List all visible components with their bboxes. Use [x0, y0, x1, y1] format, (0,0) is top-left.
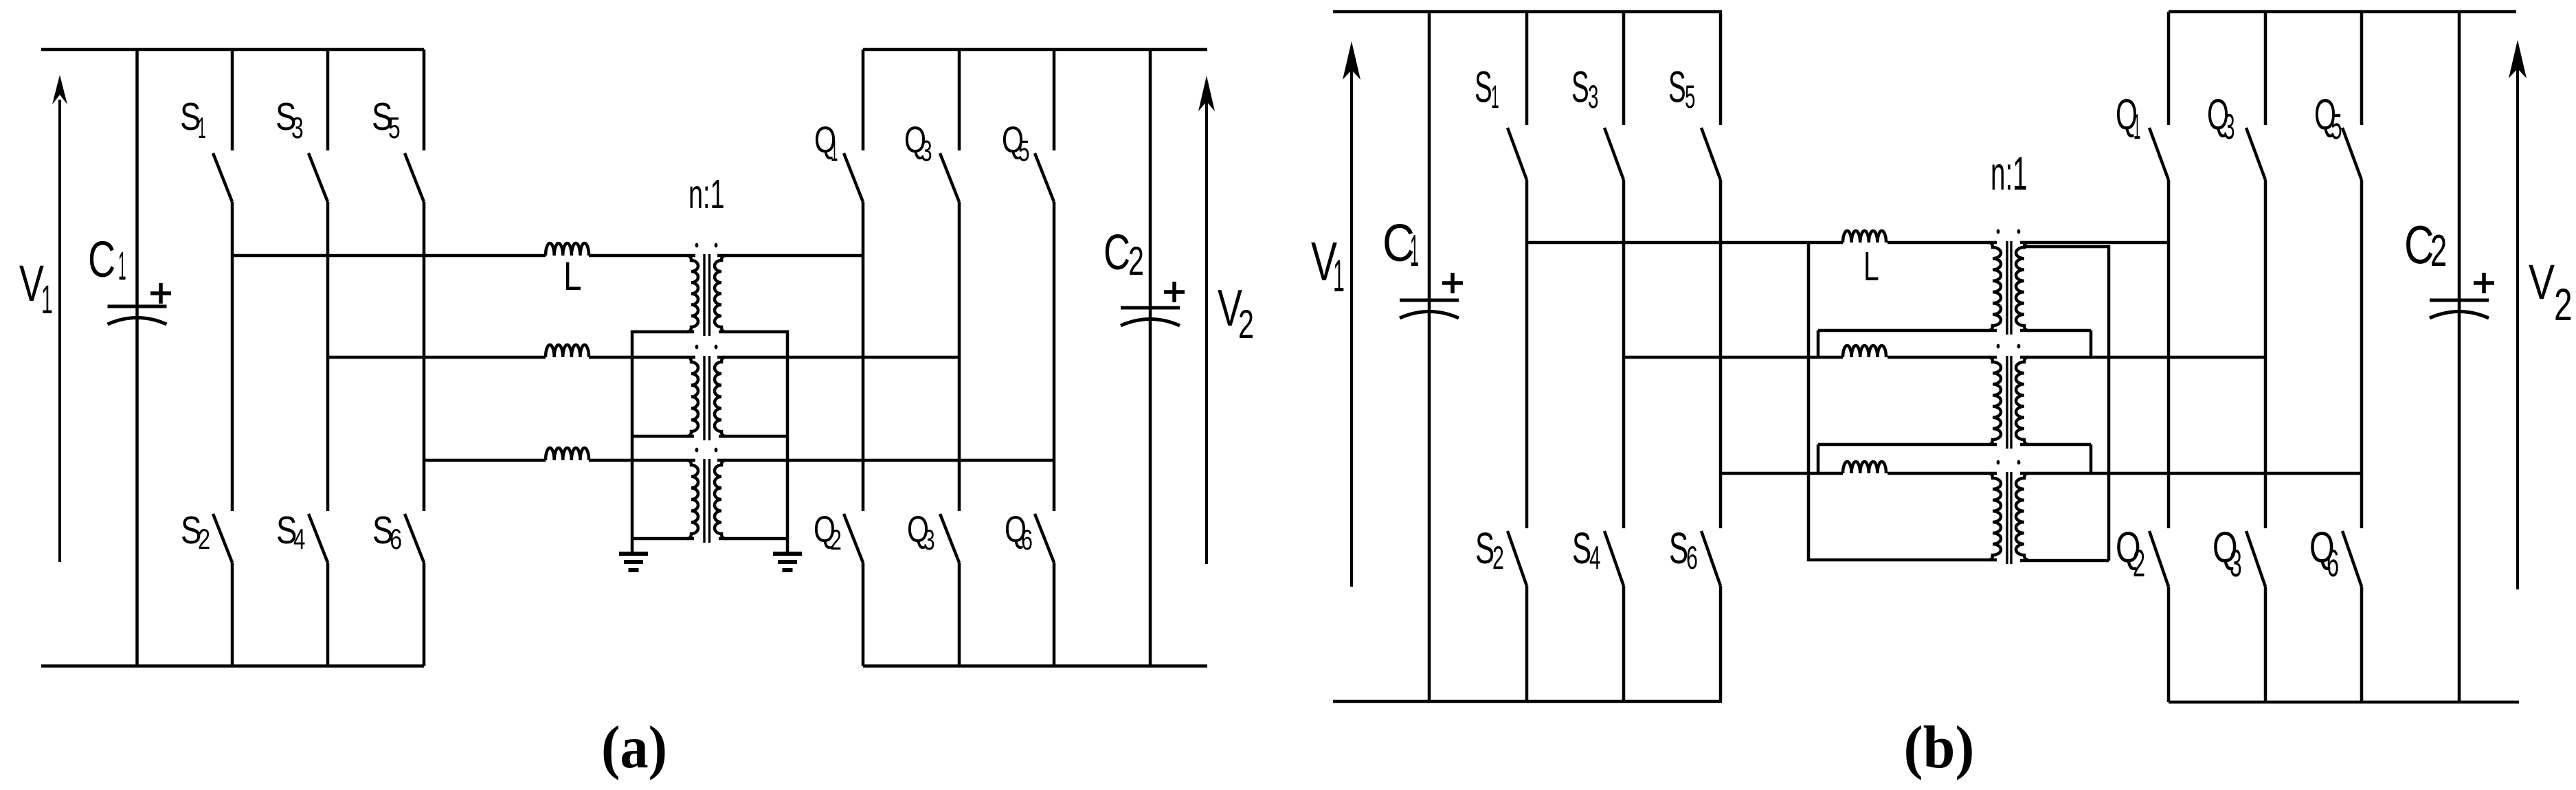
svg-text:L: L: [563, 254, 582, 299]
svg-text:V: V: [19, 255, 44, 312]
svg-text:S: S: [1572, 523, 1591, 573]
svg-text:C: C: [2404, 214, 2434, 275]
svg-text:2: 2: [2133, 541, 2145, 585]
svg-text:5: 5: [2331, 107, 2342, 147]
svg-text:2: 2: [830, 523, 842, 556]
svg-text:3: 3: [291, 111, 304, 145]
svg-text:6: 6: [1021, 523, 1033, 556]
svg-text:2: 2: [1128, 239, 1144, 284]
svg-text:L: L: [1863, 244, 1879, 289]
svg-text:S: S: [1668, 63, 1686, 112]
svg-text:2: 2: [2430, 225, 2447, 275]
svg-text:4: 4: [293, 523, 305, 555]
svg-text:2: 2: [2554, 279, 2573, 330]
svg-text:n:1: n:1: [1991, 147, 2028, 200]
svg-text:S: S: [1475, 63, 1492, 112]
svg-text:6: 6: [1686, 539, 1698, 576]
svg-text:2: 2: [1492, 539, 1504, 576]
svg-text:1: 1: [1491, 78, 1499, 115]
svg-text:S: S: [1571, 63, 1589, 112]
svg-text:1: 1: [41, 278, 53, 322]
svg-text:2: 2: [1238, 302, 1254, 347]
svg-text:(b): (b): [1904, 714, 1975, 781]
svg-text:5: 5: [388, 111, 401, 145]
svg-text:4: 4: [1589, 539, 1600, 576]
svg-text:S: S: [1669, 523, 1688, 573]
svg-text:1: 1: [1333, 250, 1345, 301]
svg-text:V: V: [2529, 256, 2555, 310]
svg-text:3: 3: [923, 523, 935, 556]
svg-text:3: 3: [1588, 78, 1598, 115]
svg-text:1: 1: [198, 111, 206, 145]
svg-text:2: 2: [198, 523, 210, 555]
svg-text:1: 1: [831, 135, 838, 168]
svg-text:1: 1: [1410, 225, 1419, 275]
svg-text:5: 5: [1685, 78, 1695, 115]
svg-text:S: S: [1475, 523, 1494, 573]
svg-text:1: 1: [118, 244, 126, 289]
svg-text:3: 3: [921, 135, 932, 168]
svg-text:6: 6: [2327, 541, 2339, 585]
svg-text:C: C: [88, 231, 115, 288]
svg-text:C: C: [1104, 225, 1130, 280]
svg-text:n:1: n:1: [688, 172, 725, 217]
svg-text:6: 6: [390, 523, 402, 555]
svg-text:3: 3: [2224, 107, 2235, 147]
svg-text:3: 3: [2230, 541, 2242, 585]
svg-text:5: 5: [1018, 135, 1030, 168]
svg-text:(a): (a): [601, 714, 667, 781]
svg-text:1: 1: [2133, 107, 2140, 147]
